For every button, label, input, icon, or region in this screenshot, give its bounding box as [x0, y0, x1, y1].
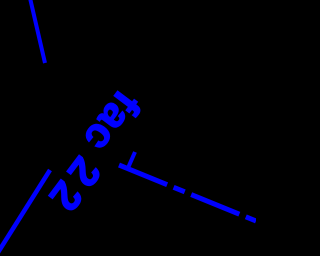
dash-dot contour line	[119, 165, 256, 221]
contour segment top-left	[30, 0, 45, 63]
contour segment bottom-left	[0, 170, 50, 254]
contour tick after label	[128, 152, 135, 168]
